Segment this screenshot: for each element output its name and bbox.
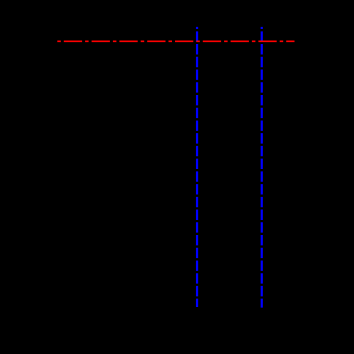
red dash-dot horizontal line [57, 40, 294, 42]
blue dashed vertical line 1 [196, 27, 198, 307]
blue dashed vertical line 2 [261, 27, 263, 308]
